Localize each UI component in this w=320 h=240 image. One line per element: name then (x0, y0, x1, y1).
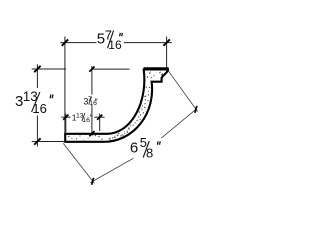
svg-text:16: 16 (32, 101, 46, 116)
dimension 1 13/16: text label (72, 112, 92, 124)
dimension 3 7/16: extension line at cap top level (92, 68, 130, 70)
dimension 1 13/16: right extension line (curve tangent point) (99, 114, 101, 132)
svg-text:16: 16 (89, 100, 97, 107)
dimension 1 13/16: dimension line right segment (94, 116, 104, 118)
dimension 3 13/16: top tick mark (34, 66, 40, 72)
dimension 3 13/16: bottom tick mark (34, 138, 40, 144)
svg-text:8: 8 (146, 145, 153, 160)
cap top edge (thicker stroke) (144, 67, 169, 70)
dimension 1 13/16: left extension line (65, 114, 67, 133)
dimension 5 7/16: right tick mark (163, 39, 169, 45)
dimension 5 7/16: right extension line (166, 37, 168, 68)
dimension 6 5/8: extension line from bottom-left corner of molding (63, 143, 94, 183)
dimension 5 7/16: left extension line (64, 37, 66, 134)
dimension 5 7/16: left tick mark (62, 39, 68, 45)
dimension 3 7/16: top tick mark (89, 67, 94, 72)
dimension 6 5/8: dimension line right segment (161, 109, 196, 138)
stipple texture dots inside molding (68, 72, 163, 141)
dimension 6 5/8: extension line from top-right corner of cap (168, 71, 197, 112)
dimension 3 7/16: vertical dimension line upper segment (91, 66, 93, 95)
dimension 3 13/16: top extension line (32, 68, 66, 70)
dimension 6 5/8: upper-right tick mark (195, 106, 197, 113)
dimension 1 13/16: left tick mark (63, 115, 68, 120)
dimension 3 13/16: bottom extension line (32, 141, 65, 143)
dimension 5 7/16: text label (97, 27, 123, 52)
dimension 3 7/16: vertical dimension line lower segment (91, 105, 93, 134)
dimension 1 13/16: dimension line left segment (61, 116, 70, 118)
svg-text:6: 6 (130, 140, 138, 157)
svg-text:16: 16 (108, 38, 122, 52)
molding profile outline (curved cove corner: straight strip, quarter-bend band, crown cap) (65, 70, 168, 142)
dimension 5 7/16: dimension line left segment (60, 42, 96, 44)
svg-text:16: 16 (82, 117, 90, 124)
dimension 5 7/16: dimension line right segment (124, 42, 172, 44)
dimension 3 7/16: text label (83, 96, 97, 107)
dimension 3 13/16: dimension line upper segment (36, 64, 38, 88)
dimension 1 13/16: right tick mark (97, 115, 102, 120)
dimension 3 13/16: text label (15, 89, 53, 116)
dimension 6 5/8: dimension line left segment (90, 158, 133, 182)
dimension 6 5/8: lower-left tick mark (92, 178, 94, 185)
dimension 6 5/8: text label (130, 135, 160, 160)
dimension 3 7/16: bottom tick mark (89, 131, 94, 136)
dimension 3 13/16: dimension line lower segment (36, 116, 38, 147)
